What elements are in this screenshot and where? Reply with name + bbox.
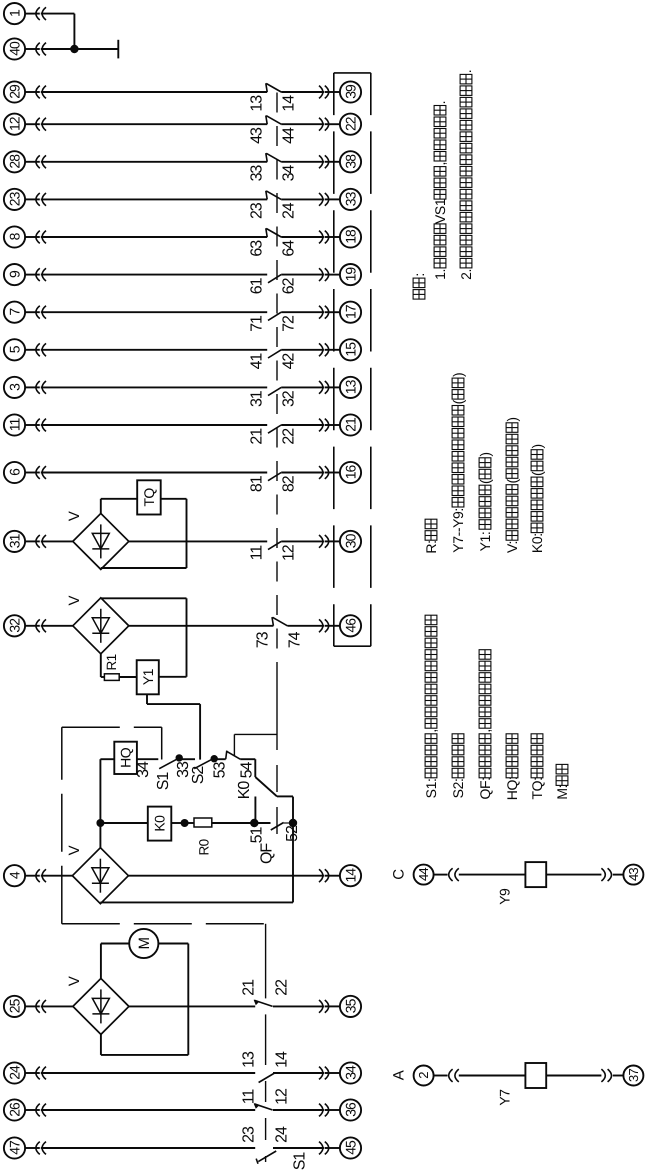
svg-text:15: 15 <box>342 342 358 357</box>
svg-text:V: V <box>66 596 83 606</box>
svg-text:34: 34 <box>135 761 152 778</box>
svg-text:33: 33 <box>342 191 358 206</box>
svg-text:14: 14 <box>342 868 358 883</box>
svg-text:24: 24 <box>274 1126 291 1143</box>
svg-text:17: 17 <box>342 304 358 319</box>
svg-text:30: 30 <box>342 533 358 548</box>
svg-text:C: C <box>391 869 408 880</box>
svg-text:11: 11 <box>249 545 266 561</box>
svg-text:32: 32 <box>6 618 22 633</box>
svg-text:53: 53 <box>212 762 229 779</box>
svg-text:R0: R0 <box>197 839 212 855</box>
svg-text:81: 81 <box>249 475 266 492</box>
svg-text:24: 24 <box>281 202 298 219</box>
svg-text:31: 31 <box>6 533 22 548</box>
svg-text:TQ:: TQ: <box>529 777 545 799</box>
svg-text:23: 23 <box>6 191 22 206</box>
svg-text:16: 16 <box>342 465 358 480</box>
svg-text:38: 38 <box>342 154 358 169</box>
svg-text:2: 2 <box>416 1072 431 1079</box>
svg-text:32: 32 <box>281 390 298 407</box>
svg-text:S2: S2 <box>190 766 207 785</box>
svg-text:9: 9 <box>6 270 22 278</box>
svg-text:26: 26 <box>6 1102 22 1117</box>
svg-text:(: ( <box>504 479 520 484</box>
svg-text:8: 8 <box>6 232 22 240</box>
svg-text:V: V <box>66 845 83 855</box>
svg-text:35: 35 <box>342 998 358 1013</box>
svg-text:45: 45 <box>342 1140 358 1155</box>
svg-text:Y9: Y9 <box>497 888 513 905</box>
svg-text:QF: QF <box>259 843 276 864</box>
svg-text:43: 43 <box>626 868 641 881</box>
svg-text:1.: 1. <box>432 269 448 280</box>
svg-text:23: 23 <box>240 1126 257 1143</box>
svg-text:.: . <box>432 101 448 105</box>
svg-text:44: 44 <box>416 868 431 881</box>
svg-text:14: 14 <box>281 95 298 112</box>
svg-text:33: 33 <box>249 165 266 182</box>
svg-text:24: 24 <box>6 1065 22 1080</box>
svg-text:R:: R: <box>423 540 439 553</box>
svg-text:21: 21 <box>240 979 257 996</box>
svg-text:(: ( <box>477 479 493 484</box>
svg-text:S1: S1 <box>155 772 172 791</box>
svg-text:43: 43 <box>249 127 266 144</box>
svg-text:S1:: S1: <box>423 778 439 798</box>
svg-text:13: 13 <box>249 95 266 112</box>
svg-text:): ) <box>477 452 493 456</box>
svg-text:21: 21 <box>342 417 358 432</box>
svg-text:(: ( <box>450 399 466 404</box>
svg-text:K0:: K0: <box>529 533 545 553</box>
svg-text:HQ:: HQ: <box>504 777 520 801</box>
svg-text:): ) <box>450 373 466 377</box>
svg-text:74: 74 <box>286 631 303 648</box>
svg-text:22: 22 <box>342 116 358 131</box>
svg-text:K0: K0 <box>236 781 253 800</box>
svg-text:M:: M: <box>554 785 570 800</box>
svg-text:11: 11 <box>240 1089 257 1105</box>
svg-text:): ) <box>504 417 520 421</box>
svg-text:5: 5 <box>6 345 22 353</box>
svg-text:14: 14 <box>274 1051 291 1068</box>
svg-text:12: 12 <box>6 116 22 131</box>
svg-text:,: , <box>477 729 493 733</box>
svg-text:2.: 2. <box>458 269 474 280</box>
svg-text:51: 51 <box>249 827 266 844</box>
svg-text:31: 31 <box>249 390 266 407</box>
svg-text:62: 62 <box>281 277 298 294</box>
svg-text:13: 13 <box>342 379 358 394</box>
svg-text:4: 4 <box>6 871 22 879</box>
svg-text:V: V <box>66 511 83 521</box>
svg-text:Y7--Y9:: Y7--Y9: <box>450 508 466 553</box>
svg-text:Y7: Y7 <box>497 1089 513 1106</box>
svg-text:11: 11 <box>6 418 22 432</box>
svg-text:V:: V: <box>504 541 520 553</box>
svg-text:39: 39 <box>342 84 358 99</box>
svg-text:7: 7 <box>6 308 22 316</box>
svg-text:22: 22 <box>281 428 298 445</box>
svg-text:54: 54 <box>239 762 256 779</box>
svg-text:HQ: HQ <box>118 747 134 768</box>
svg-text:12: 12 <box>274 1088 291 1105</box>
svg-text:Y1:: Y1: <box>477 532 493 552</box>
svg-text:63: 63 <box>249 240 266 257</box>
svg-text:42: 42 <box>281 353 298 370</box>
svg-text:19: 19 <box>342 267 358 282</box>
svg-text:46: 46 <box>342 618 358 633</box>
svg-text:82: 82 <box>281 475 298 492</box>
svg-text:34: 34 <box>342 1065 358 1080</box>
svg-text:1: 1 <box>6 9 22 17</box>
svg-text:28: 28 <box>6 154 22 169</box>
svg-text:6: 6 <box>6 468 22 476</box>
svg-text:29: 29 <box>6 84 22 99</box>
svg-text:(: ( <box>529 471 545 476</box>
svg-text:22: 22 <box>274 979 291 996</box>
svg-text:Y1: Y1 <box>140 668 156 685</box>
svg-text:72: 72 <box>281 315 298 332</box>
svg-text:VS1: VS1 <box>432 198 448 224</box>
svg-text:23: 23 <box>249 202 266 219</box>
svg-text::: : <box>411 273 427 277</box>
svg-text:,: , <box>423 729 439 733</box>
svg-text:K0: K0 <box>152 815 168 832</box>
svg-text:21: 21 <box>249 428 266 445</box>
svg-text:47: 47 <box>6 1140 22 1155</box>
svg-text:44: 44 <box>281 127 298 144</box>
svg-text:71: 71 <box>249 315 266 332</box>
svg-text:TQ: TQ <box>141 488 157 507</box>
svg-text:34: 34 <box>281 165 298 182</box>
svg-text:25: 25 <box>6 998 22 1013</box>
svg-text:18: 18 <box>342 229 358 244</box>
svg-text:): ) <box>529 444 545 448</box>
svg-text:73: 73 <box>254 631 271 648</box>
svg-text:.: . <box>458 70 474 74</box>
svg-text:R1: R1 <box>104 654 119 670</box>
svg-text:S1: S1 <box>292 1152 309 1171</box>
svg-text:M: M <box>136 937 153 949</box>
svg-text:A: A <box>391 1070 408 1080</box>
svg-text:37: 37 <box>626 1069 641 1082</box>
svg-text:S2:: S2: <box>450 778 466 798</box>
svg-text:36: 36 <box>342 1102 358 1117</box>
svg-text:13: 13 <box>240 1051 257 1068</box>
svg-text:,: , <box>432 162 448 166</box>
svg-text:61: 61 <box>249 277 266 294</box>
svg-text:41: 41 <box>249 353 266 370</box>
svg-text:QF:: QF: <box>477 777 493 799</box>
svg-text:64: 64 <box>281 240 298 257</box>
svg-text:12: 12 <box>281 544 298 561</box>
svg-text:V: V <box>66 976 83 986</box>
svg-text:40: 40 <box>6 41 22 56</box>
